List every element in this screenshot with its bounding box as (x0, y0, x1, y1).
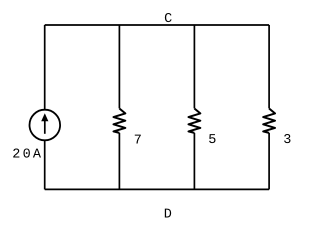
svg-text:C: C (164, 12, 172, 27)
wire: right branch upper lead (268, 25, 270, 108)
wire: right branch lower lead (268, 133, 270, 190)
wire: branch 3 upper lead (193, 25, 195, 108)
svg-text:D: D (164, 207, 172, 222)
current source I1 20A (30, 110, 61, 141)
node D (164, 207, 172, 222)
wire: branch 2 upper lead (118, 25, 120, 108)
svg-text:20A: 20A (12, 148, 43, 163)
resistor R3 3 ohm (263, 109, 275, 133)
wire: bottom rail node D (45, 188, 269, 190)
resistor R2 5 ohm (189, 109, 201, 133)
label 5 (208, 133, 216, 148)
label 20A (12, 148, 43, 163)
svg-text:7: 7 (134, 133, 142, 148)
node C (164, 12, 172, 27)
resistor R1 7 ohm (114, 109, 126, 133)
svg-text:5: 5 (208, 133, 216, 148)
wire: top rail node C (45, 24, 269, 26)
wire: left branch upper segment (44, 25, 46, 110)
wire: left branch lower segment (44, 140, 46, 189)
svg-text:3: 3 (283, 133, 291, 148)
label 7 (134, 133, 142, 148)
label 3 (283, 133, 291, 148)
wire: branch 2 lower lead (118, 133, 120, 190)
wire: branch 3 lower lead (193, 133, 195, 190)
